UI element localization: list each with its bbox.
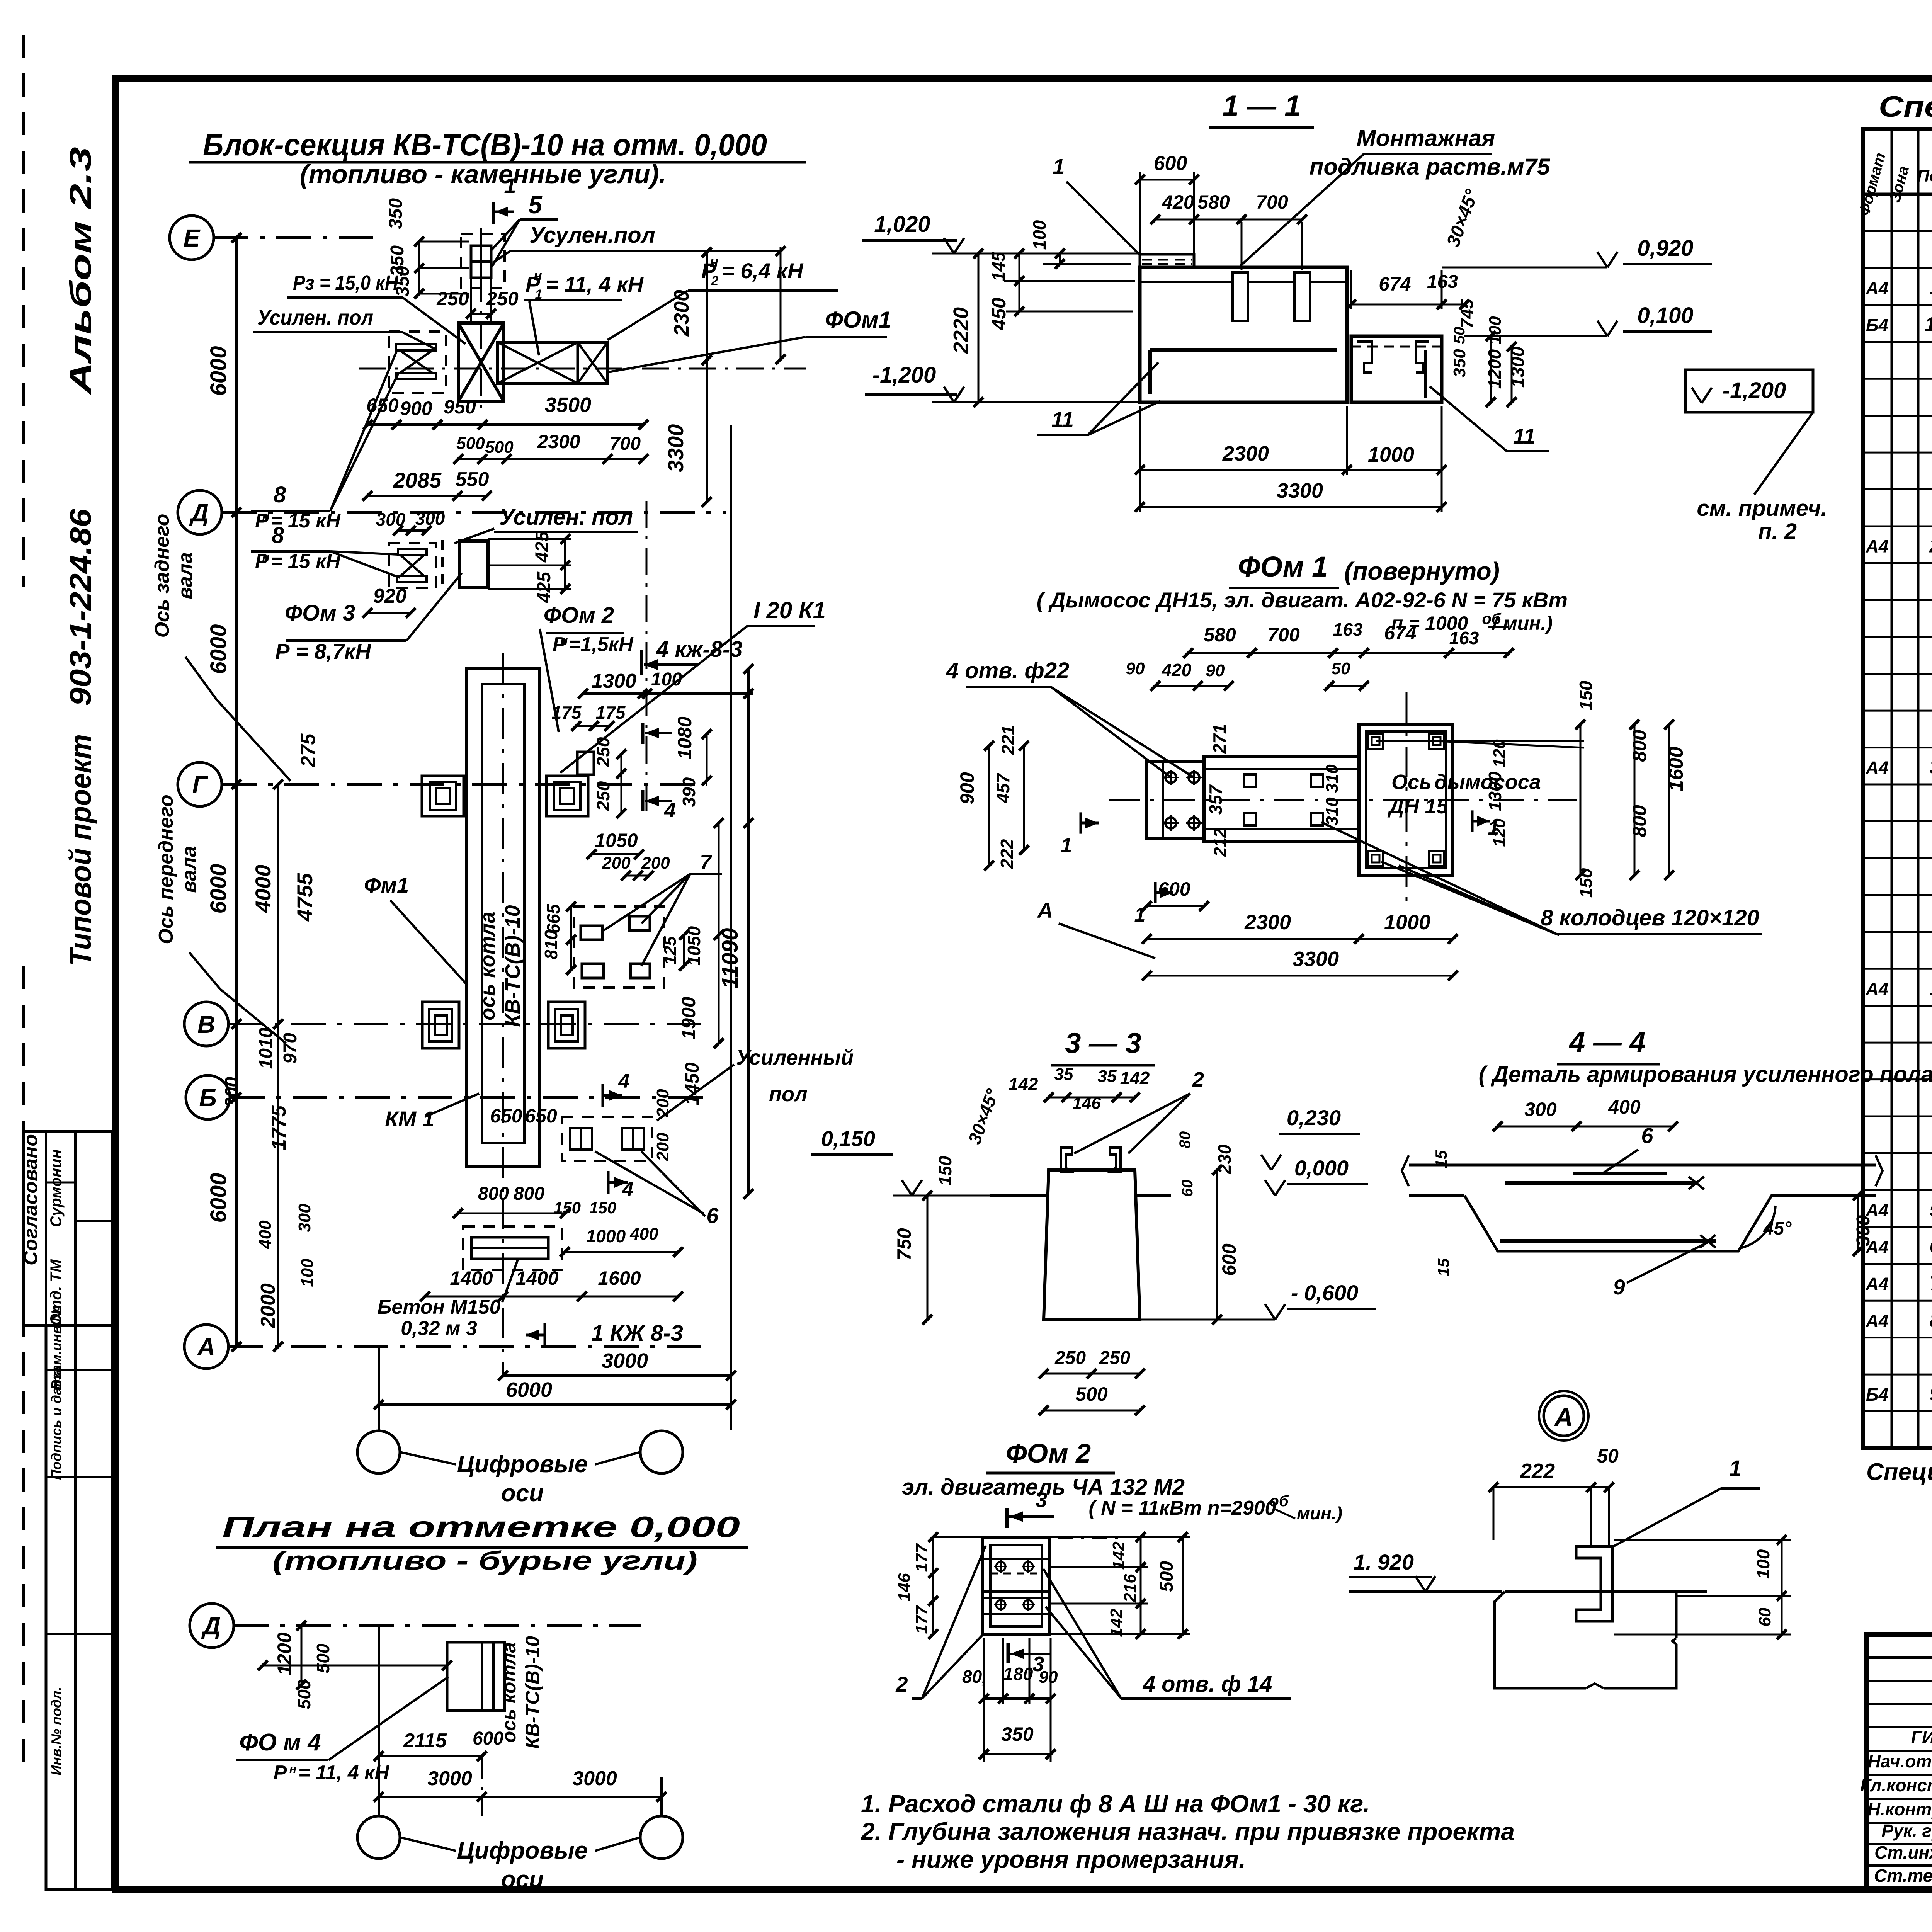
svg-text:177: 177 bbox=[912, 1605, 931, 1634]
title block bbox=[1866, 1634, 1932, 1889]
floor line bbox=[1349, 1590, 1502, 1593]
svg-text:1900: 1900 bbox=[678, 997, 699, 1039]
svg-text:(топливо - каменные угли).: (топливо - каменные угли). bbox=[300, 160, 666, 189]
svg-text:674: 674 bbox=[1379, 273, 1411, 295]
FOm2 column bbox=[983, 1537, 1049, 1634]
svg-text:142: 142 bbox=[1107, 1609, 1126, 1637]
svg-text:Б: Б bbox=[199, 1084, 216, 1112]
svg-text:11: 11 bbox=[1925, 313, 1932, 336]
svg-text:900: 900 bbox=[400, 398, 432, 419]
svg-text:100: 100 bbox=[298, 1259, 317, 1287]
svg-text:( N = 11кВт n=2900: ( N = 11кВт n=2900 bbox=[1089, 1497, 1276, 1519]
svg-text:0,32 м 3: 0,32 м 3 bbox=[401, 1317, 477, 1340]
plate 6 bbox=[1573, 1172, 1667, 1175]
svg-text:об: об bbox=[1269, 1493, 1289, 1510]
svg-text:3300: 3300 bbox=[663, 424, 688, 473]
section 1-1 body: main block bbox=[1140, 267, 1347, 402]
svg-text:5: 5 bbox=[1930, 1199, 1932, 1221]
svg-text:Е: Е bbox=[184, 224, 201, 252]
svg-text:425: 425 bbox=[532, 531, 553, 563]
svg-text:1000: 1000 bbox=[586, 1226, 626, 1246]
top extension dashdot bbox=[1058, 1537, 1120, 1539]
svg-text:2300: 2300 bbox=[1244, 911, 1291, 934]
svg-text:3 — 3: 3 — 3 bbox=[1065, 1027, 1141, 1059]
svg-text:0,000: 0,000 bbox=[1294, 1156, 1349, 1180]
svg-text:142: 142 bbox=[1120, 1068, 1150, 1088]
svg-text:950: 950 bbox=[444, 396, 476, 418]
svg-text:1: 1 bbox=[1053, 154, 1065, 179]
svg-text:1450: 1450 bbox=[681, 1062, 703, 1105]
svg-text:3000: 3000 bbox=[602, 1349, 648, 1372]
svg-text:8: 8 bbox=[1930, 1309, 1932, 1332]
D axis: dashed box with X bars bbox=[389, 543, 436, 588]
svg-text:6000: 6000 bbox=[206, 624, 231, 674]
svg-text:3000: 3000 bbox=[572, 1767, 617, 1790]
svg-text:9: 9 bbox=[1930, 1383, 1932, 1405]
svg-text:Спецификация элементов на блок: Спецификация элементов на блок-секцию да… bbox=[1866, 1459, 1932, 1485]
podlivka pad bbox=[1140, 254, 1194, 267]
svg-text:500: 500 bbox=[456, 434, 485, 453]
anchors on top bbox=[1061, 1148, 1072, 1172]
E group chain 500/500/2300/700 bbox=[458, 458, 643, 460]
svg-text:= 6,4 кН: = 6,4 кН bbox=[722, 259, 804, 283]
vertical leaders to digital axes circles bbox=[378, 1347, 380, 1430]
svg-text:175: 175 bbox=[596, 702, 626, 723]
svg-text:1: 1 bbox=[1930, 277, 1932, 299]
bolts bbox=[996, 1562, 1005, 1571]
svg-text:Рз = 15,0 кН: Рз = 15,0 кН bbox=[293, 271, 398, 294]
svg-text:221: 221 bbox=[998, 725, 1018, 755]
svg-text:50: 50 bbox=[1597, 1445, 1619, 1467]
svg-text:Сурмонин: Сурмонин bbox=[48, 1149, 65, 1227]
svg-text:145: 145 bbox=[988, 251, 1009, 281]
svg-text:1: 1 bbox=[504, 173, 516, 198]
svg-text:800: 800 bbox=[514, 1184, 544, 1204]
svg-text:700: 700 bbox=[1267, 624, 1300, 646]
stamp block Согласовано bbox=[24, 1131, 112, 1325]
svg-text:А4: А4 bbox=[1866, 1274, 1889, 1294]
axis B bbox=[186, 1075, 230, 1119]
svg-text:6000: 6000 bbox=[506, 1378, 552, 1401]
svg-text:35: 35 bbox=[1098, 1067, 1117, 1086]
svg-text:Спецификация элементов ФОм1: Спецификация элементов ФОм1 ÷ ФОм4 bbox=[1879, 90, 1932, 123]
svg-text:200: 200 bbox=[602, 854, 631, 872]
svg-text:2220: 2220 bbox=[949, 307, 973, 354]
svg-text:Д: Д bbox=[201, 1612, 221, 1640]
FOm1 plan shapes bbox=[1147, 761, 1204, 839]
svg-text:мин.): мин.) bbox=[1297, 1503, 1342, 1523]
svg-text:1400: 1400 bbox=[450, 1267, 493, 1289]
svg-text:2000: 2000 bbox=[257, 1283, 279, 1328]
vertical dim chain x=612 bbox=[235, 238, 238, 1347]
E axis: beam with X panels bbox=[498, 342, 607, 383]
svg-text:= 11, 4 кН: = 11, 4 кН bbox=[298, 1762, 389, 1784]
svg-text:1600: 1600 bbox=[598, 1267, 641, 1289]
svg-text:310: 310 bbox=[1323, 764, 1342, 793]
beton M150 block bbox=[463, 1226, 562, 1270]
svg-text:2: 2 bbox=[711, 274, 719, 288]
svg-text:163: 163 bbox=[1333, 619, 1363, 639]
svg-text:Ось переднего: Ось переднего bbox=[155, 794, 177, 944]
svg-text:пол: пол bbox=[769, 1083, 808, 1106]
3-3 block bbox=[1044, 1170, 1140, 1320]
svg-text:810: 810 bbox=[541, 930, 561, 959]
svg-text:1 — 1: 1 — 1 bbox=[1223, 90, 1301, 122]
svg-text:1000: 1000 bbox=[1384, 911, 1430, 934]
svg-text:250: 250 bbox=[1054, 1348, 1086, 1368]
svg-text:550: 550 bbox=[456, 468, 489, 491]
svg-text:357: 357 bbox=[1206, 784, 1226, 815]
digital axes circles bbox=[357, 1431, 400, 1473]
svg-text:580: 580 bbox=[1204, 624, 1236, 646]
svg-text:100: 100 bbox=[1753, 1549, 1773, 1579]
svg-text:Монтажная: Монтажная bbox=[1357, 125, 1495, 151]
svg-text:А4: А4 bbox=[1866, 278, 1889, 298]
svg-text:90: 90 bbox=[1126, 659, 1145, 678]
E axis: left group dashed box bbox=[389, 332, 446, 393]
svg-text:163: 163 bbox=[1449, 628, 1479, 648]
svg-text:4: 4 bbox=[622, 1178, 634, 1201]
svg-text:800: 800 bbox=[1629, 805, 1650, 837]
svg-text:700: 700 bbox=[610, 434, 641, 454]
svg-text:Цифровые: Цифровые bbox=[457, 1837, 588, 1864]
step block bbox=[1351, 336, 1442, 402]
svg-text:400: 400 bbox=[1608, 1096, 1641, 1118]
svg-text:8 колодцев 120×120: 8 колодцев 120×120 bbox=[1541, 905, 1759, 930]
svg-text:970: 970 bbox=[280, 1033, 301, 1064]
svg-text:250: 250 bbox=[593, 737, 613, 767]
svg-text:Усилен. пол: Усилен. пол bbox=[257, 306, 373, 329]
FOm2 pad near G axis bbox=[577, 752, 594, 775]
svg-text:150: 150 bbox=[1576, 868, 1596, 898]
E cluster vertical dashdot bbox=[480, 228, 482, 410]
E axis top: dashed box + small pad bbox=[461, 234, 505, 288]
svg-text:600: 600 bbox=[1154, 152, 1187, 175]
svg-text:11: 11 bbox=[1513, 424, 1536, 448]
svg-text:250: 250 bbox=[593, 781, 613, 811]
svg-text:1 КЖ 8-3: 1 КЖ 8-3 bbox=[591, 1321, 683, 1346]
svg-text:6000: 6000 bbox=[206, 346, 231, 396]
svg-text:250: 250 bbox=[1099, 1348, 1130, 1368]
svg-text:4000: 4000 bbox=[251, 865, 275, 913]
svg-text:1. 920: 1. 920 bbox=[1354, 1550, 1414, 1574]
svg-text:Блок-секция КВ-ТС(В)-10 на отм: Блок-секция КВ-ТС(В)-10 на отм. 0,000 bbox=[203, 128, 767, 162]
axes dashdot bbox=[1109, 799, 1577, 801]
svg-text:142: 142 bbox=[1109, 1541, 1128, 1570]
svg-text:2. Глубина заложения назнач.: 2. Глубина заложения назнач. при привязк… bbox=[861, 1818, 1515, 1845]
svg-text:35: 35 bbox=[1054, 1065, 1073, 1084]
axis D bottom bbox=[190, 1604, 234, 1648]
svg-text:А4: А4 bbox=[1866, 979, 1889, 999]
svg-text:150: 150 bbox=[589, 1199, 616, 1217]
svg-text:500: 500 bbox=[1075, 1383, 1108, 1405]
axis A bbox=[184, 1325, 228, 1369]
svg-text:2300: 2300 bbox=[1222, 442, 1269, 465]
svg-text:2115: 2115 bbox=[403, 1730, 447, 1752]
svg-text:Согласовано: Согласовано bbox=[20, 1134, 41, 1265]
svg-text:420: 420 bbox=[1162, 660, 1192, 680]
svg-text:1: 1 bbox=[1134, 904, 1146, 926]
svg-text:- ниже уровня промерзания.: - ниже уровня промерзания. bbox=[896, 1845, 1246, 1873]
svg-text:1300: 1300 bbox=[592, 670, 636, 692]
vertical dashdot FOm2 axis bbox=[646, 501, 648, 815]
concrete block outline bbox=[1495, 1592, 1707, 1688]
svg-text:1,020: 1,020 bbox=[874, 212, 930, 237]
svg-text:800: 800 bbox=[478, 1184, 509, 1204]
svg-text:390: 390 bbox=[679, 777, 699, 807]
svg-text:см. примеч.: см. примеч. bbox=[1697, 496, 1827, 521]
svg-text:212: 212 bbox=[1211, 828, 1230, 857]
svg-text:6000: 6000 bbox=[206, 1173, 231, 1223]
svg-text:ФОм 3: ФОм 3 bbox=[285, 600, 355, 626]
svg-text:п. 2: п. 2 bbox=[1758, 519, 1797, 544]
svg-text:175: 175 bbox=[552, 702, 582, 723]
mesh lines 11 bbox=[1150, 348, 1337, 352]
svg-text:(повернуто): (повернуто) bbox=[1344, 557, 1500, 585]
svg-text:Р: Р bbox=[274, 1762, 287, 1784]
svg-text:4: 4 bbox=[664, 799, 676, 822]
svg-text:650: 650 bbox=[525, 1105, 557, 1127]
svg-text:300: 300 bbox=[1524, 1099, 1557, 1120]
svg-text:600: 600 bbox=[473, 1728, 503, 1749]
svg-text:900: 900 bbox=[956, 772, 978, 804]
svg-text:-1,200: -1,200 bbox=[872, 362, 936, 388]
svg-text:1050: 1050 bbox=[595, 830, 638, 851]
svg-text:60: 60 bbox=[1755, 1607, 1774, 1626]
secondary vertical dims x=720 bbox=[277, 784, 279, 1024]
svg-text:ДН 15: ДН 15 bbox=[1387, 795, 1448, 818]
bottom dim 3000/6000 bbox=[503, 1374, 731, 1377]
svg-text:216: 216 bbox=[1121, 1574, 1139, 1603]
svg-text:1300: 1300 bbox=[1485, 771, 1505, 811]
svg-text:745: 745 bbox=[1457, 298, 1477, 328]
svg-text:- 0,600: - 0,600 bbox=[1291, 1281, 1358, 1305]
svg-text:Типовой проект: Типовой проект bbox=[63, 734, 97, 966]
svg-text:Р = 8,7кН: Р = 8,7кН bbox=[275, 639, 371, 663]
svg-text:6: 6 bbox=[1930, 1235, 1932, 1258]
svg-text:=1,5кН: =1,5кН bbox=[569, 633, 634, 656]
svg-text:1400: 1400 bbox=[515, 1267, 558, 1289]
svg-text:400: 400 bbox=[256, 1220, 275, 1249]
svg-text:4 — 4: 4 — 4 bbox=[1568, 1026, 1645, 1058]
svg-text:15: 15 bbox=[1432, 1150, 1450, 1168]
FOm4 block bbox=[447, 1642, 505, 1711]
svg-text:222: 222 bbox=[1520, 1459, 1555, 1483]
svg-text:А4: А4 bbox=[1866, 757, 1889, 777]
svg-text:1: 1 bbox=[1061, 834, 1072, 857]
svg-text:Ст.инж.: Ст.инж. bbox=[1874, 1842, 1932, 1862]
node A right dims 100/60 bbox=[1614, 1539, 1791, 1541]
svg-text:( Деталь армирования усиленног: ( Деталь армирования усиленного пола) bbox=[1479, 1062, 1932, 1087]
svg-text:457: 457 bbox=[993, 772, 1013, 803]
svg-text:200: 200 bbox=[653, 1133, 672, 1162]
svg-text:0,100: 0,100 bbox=[1637, 303, 1693, 328]
svg-text:15: 15 bbox=[1434, 1258, 1452, 1276]
svg-text:= 11, 4 кН: = 11, 4 кН bbox=[546, 272, 644, 296]
svg-text:920: 920 bbox=[373, 585, 407, 607]
svg-text:200: 200 bbox=[641, 854, 670, 872]
svg-text:2300: 2300 bbox=[670, 290, 693, 337]
svg-text:2: 2 bbox=[1929, 535, 1932, 557]
node A circle bbox=[1544, 1396, 1584, 1436]
svg-text:ФОм 1: ФОм 1 bbox=[1238, 551, 1328, 583]
svg-text:н: н bbox=[289, 1763, 296, 1776]
svg-text:1. Расход стали ф 8 А Ш на Ф: 1. Расход стали ф 8 А Ш на ФОм1 - 30 кг. bbox=[861, 1790, 1370, 1818]
sheet edge dashed line left bbox=[22, 35, 25, 587]
svg-text:2300: 2300 bbox=[537, 431, 580, 452]
channel MN profile bbox=[1576, 1546, 1612, 1621]
-1.200 box bbox=[1685, 370, 1813, 412]
svg-text:Усулен.пол: Усулен.пол bbox=[529, 223, 655, 248]
svg-text:н: н bbox=[710, 254, 718, 270]
svg-text:3: 3 bbox=[1036, 1488, 1047, 1512]
axis D bbox=[178, 490, 222, 534]
svg-text:9: 9 bbox=[1613, 1275, 1625, 1299]
svg-text:1: 1 bbox=[1930, 977, 1932, 1000]
E group bottom dims 650/900/950/3500 bbox=[368, 423, 643, 426]
G axis pads bbox=[422, 776, 464, 816]
svg-text:А: А bbox=[197, 1333, 215, 1361]
svg-text:Б4: Б4 bbox=[1866, 1384, 1888, 1405]
svg-text:Д: Д bbox=[189, 499, 209, 527]
svg-text:I 20 К1: I 20 К1 bbox=[753, 597, 826, 623]
svg-text:ФОм1: ФОм1 bbox=[825, 307, 891, 333]
svg-text:7: 7 bbox=[1930, 1272, 1932, 1295]
svg-text:125: 125 bbox=[661, 936, 680, 965]
svg-text:Ось заднего: Ось заднего bbox=[151, 514, 173, 638]
svg-text:500: 500 bbox=[485, 438, 514, 457]
svg-text:903-1-224.86: 903-1-224.86 bbox=[63, 509, 97, 706]
svg-text:Г: Г bbox=[192, 771, 208, 799]
bottom dims 1-1 bbox=[1140, 469, 1442, 471]
svg-text:50: 50 bbox=[1451, 327, 1468, 344]
svg-text:7: 7 bbox=[700, 851, 713, 874]
svg-text:КВ-ТС(В)-10: КВ-ТС(В)-10 bbox=[501, 905, 524, 1027]
svg-text:8: 8 bbox=[274, 482, 286, 507]
svg-text:2: 2 bbox=[1192, 1068, 1204, 1091]
svg-text:1200: 1200 bbox=[274, 1632, 295, 1675]
svg-text:146: 146 bbox=[895, 1573, 914, 1602]
svg-text:420: 420 bbox=[1162, 191, 1194, 213]
svg-text:500: 500 bbox=[1156, 1561, 1177, 1592]
svg-text:Фм1: Фм1 bbox=[364, 873, 409, 897]
svg-text:142: 142 bbox=[1009, 1074, 1038, 1094]
anchor slots bbox=[1233, 272, 1248, 321]
svg-text:План на отметке 0,000: План на отметке 0,000 bbox=[222, 1511, 740, 1544]
svg-text:Ось: Ось bbox=[1391, 770, 1432, 794]
svg-text:3500: 3500 bbox=[545, 393, 591, 417]
svg-text:2085: 2085 bbox=[393, 468, 442, 492]
stamp column Взам.инв.№ / Подпись и дата / Инв.№ подл. bbox=[46, 1325, 112, 1889]
svg-text:0,920: 0,920 bbox=[1637, 236, 1693, 261]
svg-text:А: А bbox=[1554, 1403, 1573, 1431]
svg-text:300: 300 bbox=[1853, 1215, 1874, 1246]
svg-text:-1,200: -1,200 bbox=[1723, 378, 1786, 403]
svg-text:4755: 4755 bbox=[293, 873, 317, 922]
svg-text:0,150: 0,150 bbox=[821, 1126, 875, 1151]
E axis: crossed square bbox=[458, 323, 504, 401]
svg-text:750: 750 bbox=[893, 1228, 915, 1260]
svg-text:ФОм 2: ФОм 2 bbox=[544, 603, 614, 628]
svg-text:350: 350 bbox=[1450, 349, 1469, 378]
svg-text:450: 450 bbox=[988, 298, 1010, 330]
svg-text:4: 4 bbox=[618, 1070, 630, 1092]
svg-text:Н.контр.: Н.контр. bbox=[1867, 1799, 1932, 1819]
svg-text:350: 350 bbox=[386, 198, 406, 229]
svg-text:90: 90 bbox=[1039, 1668, 1058, 1687]
svg-text:1200: 1200 bbox=[1485, 349, 1505, 389]
svg-text:Усиленный: Усиленный bbox=[736, 1046, 854, 1069]
svg-text:425: 425 bbox=[534, 571, 554, 603]
svg-text:1: 1 bbox=[1729, 1456, 1742, 1481]
axis G bbox=[178, 762, 222, 806]
svg-text:подливка раств.м75: подливка раств.м75 bbox=[1310, 154, 1551, 180]
svg-text:150: 150 bbox=[554, 1199, 581, 1217]
svg-text:275: 275 bbox=[297, 733, 320, 768]
svg-text:580: 580 bbox=[1197, 191, 1230, 213]
svg-text:1000: 1000 bbox=[1368, 443, 1414, 466]
svg-text:100: 100 bbox=[1029, 220, 1049, 250]
svg-text:Б4: Б4 bbox=[1866, 315, 1888, 335]
svg-text:3300: 3300 bbox=[1277, 479, 1323, 502]
svg-text:Ст.тех.: Ст.тех. bbox=[1874, 1866, 1932, 1886]
svg-text:5: 5 bbox=[528, 191, 543, 219]
svg-text:177: 177 bbox=[912, 1543, 931, 1572]
svg-text:350: 350 bbox=[1001, 1723, 1034, 1745]
svg-text:1: 1 bbox=[1488, 817, 1499, 839]
section flags FOm1 bbox=[1080, 812, 1082, 833]
svg-text:А4: А4 bbox=[1866, 536, 1889, 556]
svg-text:Бетон М150: Бетон М150 bbox=[378, 1296, 501, 1318]
svg-text:80: 80 bbox=[1177, 1131, 1194, 1149]
svg-text:674: 674 bbox=[1384, 622, 1416, 644]
boiler center dashdot bbox=[502, 653, 504, 1198]
svg-text:Поз.: Поз. bbox=[1917, 167, 1932, 185]
svg-text:/ мин.): / мин.) bbox=[1492, 612, 1553, 634]
svg-text:Нач.отд.: Нач.отд. bbox=[1868, 1751, 1932, 1771]
svg-text:( Дымосос ДН15, эл. двигат. А0: ( Дымосос ДН15, эл. двигат. А02-92-6 N =… bbox=[1037, 588, 1568, 612]
lower right pads group with 7 bbox=[574, 906, 664, 988]
svg-text:60: 60 bbox=[1179, 1180, 1196, 1197]
svg-text:90: 90 bbox=[1206, 661, 1225, 680]
flag 4 upper bbox=[641, 723, 645, 744]
svg-text:А: А bbox=[1037, 898, 1053, 922]
svg-text:вала: вала bbox=[174, 552, 197, 599]
B-axis small pads with flags bbox=[562, 1117, 652, 1161]
svg-text:300: 300 bbox=[222, 1077, 242, 1108]
E cluster horizontal dashdot bbox=[359, 368, 806, 370]
axis E bbox=[170, 216, 214, 260]
V axis pads bbox=[422, 1002, 459, 1048]
flag 4 lower bbox=[641, 790, 645, 811]
svg-text:Гл.конст.: Гл.конст. bbox=[1860, 1775, 1932, 1795]
section flag 3 top bbox=[1005, 1508, 1009, 1528]
svg-text:1080: 1080 bbox=[674, 716, 696, 759]
svg-text:4 отв. ф 14: 4 отв. ф 14 bbox=[1143, 1672, 1272, 1697]
svg-text:Рук. гр.: Рук. гр. bbox=[1881, 1821, 1932, 1841]
D axis: solid pad bbox=[459, 541, 488, 588]
svg-text:800: 800 bbox=[1629, 730, 1650, 762]
section mark 1 over pad bbox=[492, 202, 495, 224]
svg-text:4 отв. ф22: 4 отв. ф22 bbox=[946, 658, 1069, 683]
svg-text:50: 50 bbox=[1332, 659, 1350, 678]
svg-text:700: 700 bbox=[1256, 191, 1288, 213]
svg-text:А4: А4 bbox=[1866, 1311, 1889, 1331]
svg-text:3300: 3300 bbox=[1293, 947, 1339, 971]
section flag 3 bottom bbox=[1007, 1643, 1010, 1663]
svg-text:1775: 1775 bbox=[268, 1105, 290, 1150]
axis V bbox=[184, 1002, 228, 1046]
